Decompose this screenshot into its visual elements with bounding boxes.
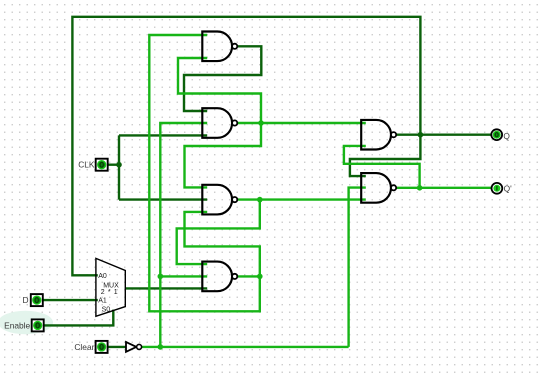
wire G4 output to G1 top input — [149, 35, 259, 311]
junction CLK node — [116, 162, 122, 168]
svg-text:A1: A1 — [98, 298, 107, 305]
input pin CLK — [96, 159, 108, 171]
svg-text:Enable: Enable — [4, 320, 30, 330]
wire Q net border loop to MUX A0 — [72, 17, 420, 276]
wire G1 output loop to G2 top input — [184, 46, 261, 111]
wire Clear' to G4 middle input — [160, 275, 207, 277]
output pin Q — [491, 129, 502, 140]
wire Clear' vertical to G2 middle input — [160, 123, 207, 347]
junction Q node — [418, 132, 424, 138]
wire G2 output feedback to G1 bottom input — [178, 58, 261, 123]
wire G2 output to G5 top input — [237, 122, 365, 124]
wire G2 output to G3 top input — [185, 123, 262, 187]
wire Enable pin to MUX S0 — [44, 310, 114, 326]
wire G4 output to G3 bottom input — [185, 212, 260, 277]
multiplexer MUX 2x1 — [96, 258, 125, 316]
wire Clear pin to NOT gate — [108, 346, 126, 348]
wire G3 output to G6 bottom input — [237, 198, 365, 200]
wire Q' feedback to G5 bottom input — [344, 146, 420, 188]
input pin Enable — [32, 319, 44, 331]
nand gate G4 — [202, 262, 237, 292]
wire CLK to G3 middle input — [119, 198, 207, 200]
wire CLK to G2 bottom input — [119, 134, 207, 136]
selection halo around Enable pin — [0, 311, 53, 335]
wire CLK vertical x=119 — [118, 135, 120, 199]
junction Q' node — [417, 185, 423, 191]
input pin Clear — [96, 341, 108, 353]
svg-text:Clear: Clear — [74, 342, 94, 352]
nand gate G3 — [202, 185, 237, 215]
wire Q' net: G6 output to Q' pin — [397, 187, 492, 189]
wire Q net feedback to G6 top input — [350, 135, 421, 176]
wire G3 output to G4 top input — [177, 200, 260, 265]
wire CLK pin to junction — [108, 163, 119, 165]
wire G4 output stub — [237, 275, 259, 277]
svg-text:Q: Q — [503, 131, 510, 141]
nand gate G2 — [202, 108, 237, 138]
svg-text:2 * 1: 2 * 1 — [101, 289, 118, 296]
wire Clear' to G6 middle input — [349, 188, 366, 347]
input pin D — [31, 294, 43, 306]
svg-text:A0: A0 — [98, 273, 107, 280]
junction G2 output node — [258, 120, 264, 126]
svg-text:CLK: CLK — [78, 160, 95, 170]
svg-text:D: D — [23, 295, 29, 305]
wire D pin to MUX A1 — [43, 299, 98, 301]
junction Clear' at G4 middle — [158, 274, 164, 280]
junction Clear' at Clear line — [158, 344, 164, 350]
wire Q net: G5 output to Q pin — [397, 133, 492, 135]
nand gate G6 — [361, 173, 396, 203]
junction G3 output node — [257, 197, 263, 203]
junction G4 output node — [257, 274, 263, 280]
wire NOT output Clear' line — [142, 346, 349, 348]
svg-text:S0: S0 — [102, 306, 111, 313]
nand gate G1 — [202, 32, 237, 62]
svg-text:Q': Q' — [504, 184, 513, 194]
nand gate G5 — [361, 120, 396, 150]
output pin Q' — [492, 183, 503, 194]
wire MUX output to G4 bottom input — [125, 287, 207, 289]
not gate U1 (Clear inverter) — [126, 342, 142, 352]
